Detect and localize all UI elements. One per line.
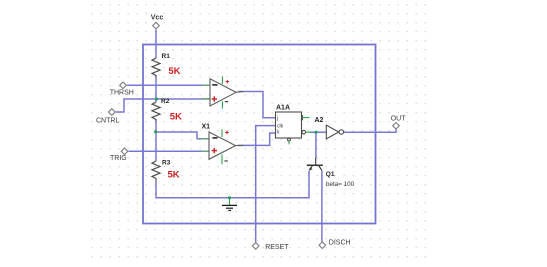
resistor R2 bbox=[152, 98, 170, 122]
wire node R2R3 to X1 minus input bbox=[156, 132, 210, 139]
node ground junction bbox=[228, 196, 231, 199]
svg-text:R3: R3 bbox=[162, 160, 171, 167]
wire R3 bottom to ground rail to Q1 emitter bbox=[156, 171, 309, 198]
pin TRIG bbox=[110, 148, 128, 162]
subcircuit boundary box bbox=[143, 45, 376, 224]
svg-text:A2: A2 bbox=[315, 117, 324, 124]
wire R1 bottom to R2 top bbox=[155, 77, 157, 103]
wire comparator output to A1A j input bbox=[238, 92, 276, 118]
value label 5K of R1 bbox=[168, 66, 180, 77]
value label 5K of R3 bbox=[168, 170, 180, 181]
svg-text:beta= 100: beta= 100 bbox=[326, 181, 355, 188]
resistor R3 bbox=[152, 160, 171, 182]
pin OUT bbox=[391, 115, 407, 129]
svg-text:RESET: RESET bbox=[265, 244, 289, 251]
svg-text:CNTRL: CNTRL bbox=[96, 118, 119, 125]
svg-text:5K: 5K bbox=[170, 112, 182, 123]
svg-text:A1A: A1A bbox=[276, 104, 290, 111]
wire THRSH to comparator minus input bbox=[127, 84, 210, 86]
wire node qbar to Q1 base bbox=[315, 132, 317, 158]
pin THRSH bbox=[110, 82, 134, 96]
wire Q1 collector to DISCH pin bbox=[321, 171, 323, 242]
value label 5K of R2 bbox=[170, 112, 182, 123]
svg-text:R2: R2 bbox=[161, 98, 170, 105]
wire Vcc to R1 bbox=[155, 30, 157, 59]
wire X1 output to A1A k input bbox=[238, 133, 276, 145]
node qbar junction bbox=[315, 131, 318, 134]
svg-text:Q1: Q1 bbox=[326, 171, 335, 178]
inverter A2 bbox=[315, 117, 344, 139]
svg-text:TRIG: TRIG bbox=[110, 155, 127, 162]
wire A1A qbar to A2 input bbox=[310, 131, 326, 133]
svg-text:5K: 5K bbox=[168, 170, 180, 181]
pin CNTRL bbox=[96, 109, 119, 125]
svg-text:R1: R1 bbox=[162, 53, 171, 60]
op-amp comparator upper bbox=[202, 76, 244, 108]
svg-text:OUT: OUT bbox=[391, 115, 407, 122]
node R2R3 junction bbox=[154, 131, 157, 134]
wire A2 output to OUT pin bbox=[344, 129, 396, 132]
svg-text:Vcc: Vcc bbox=[151, 15, 164, 22]
resistor R1 bbox=[152, 53, 170, 77]
pin DISCH bbox=[319, 240, 351, 249]
wire node R1R2 to comparator plus input bbox=[157, 98, 211, 100]
flip-flop A1A bbox=[276, 104, 312, 144]
svg-text:THRSH: THRSH bbox=[110, 89, 134, 96]
wire TRIG to X1 plus input bbox=[129, 150, 210, 152]
wire R2 bottom to R3 top bbox=[155, 122, 157, 162]
pin RESET bbox=[252, 243, 289, 251]
pin Vcc bbox=[151, 15, 164, 29]
wire CNTRL to node R1R2 bbox=[116, 99, 157, 112]
wire RESET to A1A clk input bbox=[256, 126, 276, 243]
svg-text:X1: X1 bbox=[202, 124, 211, 131]
grid canvas bbox=[88, 0, 426, 259]
op-amp comparator X1 bbox=[201, 124, 243, 165]
svg-text:j: j bbox=[276, 116, 278, 122]
node R1R2 junction bbox=[155, 98, 158, 101]
svg-text:5K: 5K bbox=[168, 66, 180, 77]
ground bbox=[222, 198, 237, 211]
transistor Q1 bbox=[307, 158, 355, 188]
svg-text:DISCH: DISCH bbox=[329, 240, 351, 247]
